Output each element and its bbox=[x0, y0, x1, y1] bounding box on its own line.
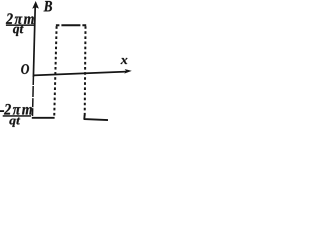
top level label denominator qt bbox=[13, 25, 24, 36]
bottom fraction bar bbox=[3, 115, 31, 117]
bottom label minus sign bbox=[0, 110, 4, 112]
y-axis line lower bbox=[32, 77, 35, 116]
origin label O bbox=[21, 64, 29, 74]
solid bottom segment right with corner stub bbox=[84, 115, 108, 120]
axis label x bbox=[121, 58, 128, 64]
top fraction bar bbox=[6, 24, 34, 26]
dashed pulse right edge bbox=[84, 26, 87, 115]
solid bottom segment left bbox=[32, 117, 55, 119]
x-axis arrowhead bbox=[124, 69, 132, 74]
top level label numerator 2pim bbox=[6, 13, 34, 24]
bottom level label denominator qt bbox=[9, 117, 20, 126]
background bbox=[0, 0, 134, 137]
y-axis line upper bbox=[33, 7, 35, 78]
x-axis line bbox=[34, 72, 127, 76]
bottom level label numerator 2pim bbox=[4, 104, 32, 115]
dashed pulse left edge bbox=[54, 26, 56, 117]
dashed pulse top edge bbox=[56, 24, 86, 26]
axis label B bbox=[44, 1, 52, 11]
y-axis arrowhead bbox=[32, 1, 39, 9]
